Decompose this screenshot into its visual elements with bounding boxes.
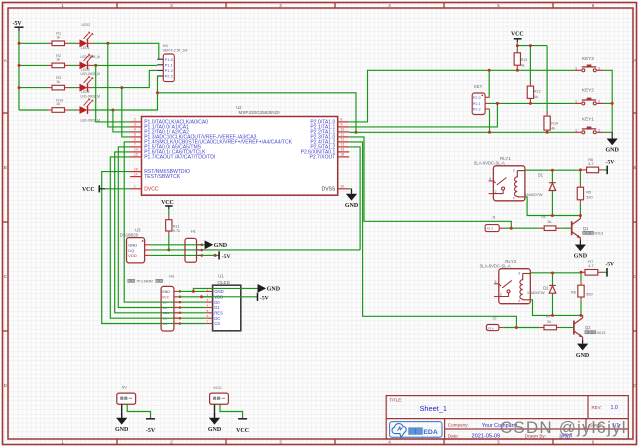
svg-text:KEY3: KEY3 [582,56,594,61]
svg-text:13: 13 [341,143,345,147]
svg-text:GND: GND [576,353,590,359]
svg-text:1: 1 [61,440,64,445]
svg-text:P1.0: P1.0 [165,57,174,62]
svg-text:P2.0: P2.0 [473,96,481,100]
svg-text:GND: GND [345,203,359,209]
transistor Q2 [574,315,583,340]
svg-text:MSP430G2553IN20: MSP430G2553IN20 [239,110,281,115]
svg-text:GND: GND [214,243,228,249]
MCU U2 MSP430G2553IN20 body [142,117,338,196]
resistor R8 [580,272,582,281]
svg-text:REV:: REV: [592,405,602,410]
svg-text:Q1: Q1 [583,226,589,231]
svg-text:DS18B20: DS18B20 [120,233,139,238]
wire LED row 1 left [19,42,48,44]
svg-text:H3: H3 [163,43,169,48]
svg-text:5: 5 [497,3,500,8]
svg-text:LED4: LED4 [81,90,90,94]
wire U3 DQ row long to P2.5 riser [150,249,360,251]
svg-text:D0: D0 [214,300,220,305]
svg-text:20: 20 [341,185,345,189]
svg-text:1: 1 [575,100,577,104]
wire P2.3 to J1 [349,137,511,228]
wire MCU P1.5 to H2 pin4 / OLED D1 [118,147,206,308]
connector J1 [485,225,499,232]
U3 pin stubs [145,245,151,256]
relay RLY1 body [493,166,525,201]
power flag GND at Q2 [576,340,590,359]
svg-text:2021-05-09: 2021-05-09 [472,434,501,440]
svg-text:2k: 2k [547,319,551,324]
junction dots keys section [516,44,519,47]
power flag -5V at R7 [602,271,607,273]
resistor R4 2k [540,227,544,229]
svg-text:P1.7/CAOUT /A7/CA7/TDO/TDI: P1.7/CAOUT /A7/CA7/TDO/TDI [144,155,215,161]
svg-text:14: 14 [134,148,138,152]
svg-text:7P-2.54MM: 7P-2.54MM [136,279,153,283]
svg-text:4: 4 [134,128,136,132]
OLED U1 body [213,285,241,331]
relay RLY2 contact [494,280,512,296]
svg-text:KEY1: KEY1 [582,116,594,121]
diode D1 [551,170,553,182]
svg-text:LED2: LED2 [82,23,91,27]
wire RLY2 coil bottom to rail [530,300,581,316]
connector H3 pin stubs [157,59,163,76]
MCU U2 left pin names [144,120,292,193]
diode D2 [552,273,554,285]
svg-text:3: 3 [513,169,515,173]
relay RLY1 contact [489,178,507,194]
svg-text:Sheet_1: Sheet_1 [420,404,448,413]
svg-text:4: 4 [513,196,515,200]
wire LED row2 branch to MCU P1.0 [96,65,130,122]
wires crossing H1 [185,244,197,246]
switch KEY1 [575,127,604,134]
svg-text:VDD: VDD [128,253,137,258]
wire keys right rail to GND [604,70,613,132]
power flag -5V (top left) [13,21,24,31]
wire LED row 3 left [19,87,48,89]
svg-text:5: 5 [134,133,136,137]
wire LED row2 to H3 pin2 [93,64,158,66]
svg-text:1k: 1k [56,102,60,106]
wire KEY pin1 riser to VCC rail row [488,70,490,97]
resistor R14 [546,46,548,113]
svg-text:2k: 2k [547,219,551,224]
svg-text:9013: 9013 [594,231,604,236]
svg-text:4: 4 [518,299,520,303]
wire U1 VDD row to -5V flag [202,296,258,298]
svg-text:P1.1: P1.1 [165,63,174,68]
svg-text:P2.3: P2.3 [487,227,494,231]
svg-text:GND: GND [208,427,222,433]
svg-text:U1: U1 [218,273,224,278]
svg-text:SLA-6VDC-SL-A: SLA-6VDC-SL-A [474,161,505,166]
U1 pin stubs and numbers [206,287,213,323]
svg-text:R12: R12 [534,89,541,93]
connector J2 [486,325,499,331]
svg-text:-5V: -5V [606,160,615,166]
svg-text:VCC: VCC [213,385,222,390]
relay RLY2 body [499,269,531,304]
svg-text:Company:: Company: [448,423,469,428]
H2 pin stubs and dots [174,291,178,323]
resistor R13 [516,46,518,50]
power flag -5V at U1 [258,293,269,302]
power flag VCC (keys) [511,31,524,42]
MCU U2 right pin stubs and numbers [338,118,350,189]
svg-text:P2.2: P2.2 [165,74,174,79]
svg-text:3: 3 [134,123,136,127]
svg-text:4.7: 4.7 [588,263,593,268]
relay RLY2 coil [520,274,530,300]
svg-text:-5V: -5V [222,254,231,260]
svg-text:2: 2 [598,129,600,133]
svg-text:DVCC: DVCC [144,186,159,192]
resistor R6 [582,169,586,171]
power flag -5V at R6 [603,169,607,171]
wire R9 to Q2 base [561,327,574,329]
svg-text:H2: H2 [169,273,175,278]
svg-text:EDA: EDA [423,429,437,436]
relay RLY1 coil [515,171,525,197]
wire 5V module pin1 to GND [121,404,123,418]
svg-text:VCC: VCC [82,187,95,193]
svg-text:LED1: LED1 [81,46,90,50]
svg-text:P2.2: P2.2 [473,108,481,112]
svg-text:GND: GND [162,290,170,294]
temperature sensor U3 DS18B20 [127,238,145,263]
MCU U2 left pin stubs and numbers [130,118,141,189]
wire resistor to LED row 2 [69,64,77,66]
svg-text:3: 3 [518,272,520,276]
wire R11 to DQ net [168,235,170,250]
svg-text:GND: GND [214,289,224,294]
wire RLY1 coil bottom to rail [525,197,581,216]
svg-text:2: 2 [170,440,173,445]
wire R4 to Q1 base [560,227,571,229]
svg-text:Date:: Date: [448,433,459,438]
LED LED1 [77,31,94,47]
svg-text:2: 2 [598,100,600,104]
wire LED row3 branch to MCU P1.3 [122,88,130,137]
svg-text:5V: 5V [122,385,127,390]
connector H1 [185,238,197,262]
power flag VCC at DVCC [82,185,105,193]
wire VCC module pin2 to VCC [220,404,243,418]
svg-text:4: 4 [388,3,391,8]
svg-text:12: 12 [341,138,345,142]
svg-text:H1: H1 [191,229,197,234]
wire KEY pin3 riser to KEY1 row [489,109,491,132]
svg-text:TITLE:: TITLE: [389,398,402,403]
svg-text:-5V: -5V [605,262,614,268]
junction dot R11-DQ [167,248,170,251]
svg-text:VCC: VCC [162,296,170,300]
svg-text:B: B [4,165,7,170]
svg-text:P2.4: P2.4 [488,326,494,330]
wire -5V left rail [18,31,20,110]
power flag GND at 5V module [115,413,129,433]
wire KEY3 row [517,69,574,71]
svg-text:1: 1 [61,3,64,8]
svg-text:OLED: OLED [217,280,230,285]
wire U3 GND row to H1 [150,244,185,246]
H1 pin dots [201,244,204,247]
svg-text:R8: R8 [571,290,576,295]
svg-text:VCC: VCC [236,428,249,434]
title block frame [386,396,628,439]
resistor R5 [579,170,581,184]
svg-text:1: 1 [134,185,136,189]
resistor R3 [48,87,53,89]
wires crossing H2 [161,301,174,303]
svg-text:11: 11 [341,133,345,137]
wire RLY2 coil top rail [530,272,552,274]
power flag GND at VCC module [208,413,222,433]
svg-text:1N4007W: 1N4007W [527,290,545,295]
svg-text:6: 6 [592,440,595,445]
switch KEY2 [575,98,604,105]
svg-text:5: 5 [497,440,500,445]
svg-text:R9: R9 [546,315,550,319]
svg-text:SLA-6VDC-SL-A: SLA-6VDC-SL-A [480,264,511,269]
wire 5V module pin2 to -5V [127,404,150,418]
svg-text:18: 18 [341,153,345,157]
resistor R11 [168,209,170,216]
svg-text:2: 2 [598,67,600,71]
svg-text:DQ: DQ [128,248,134,253]
svg-text:B: B [633,165,636,170]
resistor R9 2k [540,327,544,329]
svg-text:2: 2 [500,293,502,297]
svg-text:4.7k: 4.7k [173,229,180,233]
svg-text:1k: 1k [56,80,60,84]
wire Q2 collector riser [582,314,584,316]
svg-text:2: 2 [134,118,136,122]
wire LED row1 to H3 pin1 [93,43,159,59]
svg-text:LED-0603_M: LED-0603_M [81,72,101,76]
svg-text:4k: 4k [534,95,538,99]
svg-text:1N4007W: 1N4007W [525,192,543,197]
connector H3 [163,54,174,82]
svg-text:2: 2 [495,190,497,194]
svg-text:1.0: 1.0 [611,405,618,411]
MCU U2 right pin names [301,120,336,193]
svg-text:-5V: -5V [13,21,23,27]
svg-text:GND: GND [574,254,588,260]
svg-text:1k: 1k [56,36,60,40]
svg-text:KEY2: KEY2 [582,88,594,93]
svg-text:7: 7 [134,143,136,147]
wire MCU P1.6 to H2 pin5 / OLED RES [115,152,206,313]
svg-text:LED-0603_M: LED-0603_M [81,94,101,98]
svg-text:CS: CS [214,321,220,326]
resistor R12 [529,46,531,83]
resistor R10 [48,109,53,111]
wire VCC rail keys [516,42,518,46]
connector KEY pin stubs [485,97,489,109]
wire resistor to LED row 4 [69,109,77,111]
svg-text:P2.1: P2.1 [473,102,481,106]
power flag VCC at R11 [161,200,174,209]
resistor R1 [48,42,53,44]
svg-text:DC: DC [214,316,220,321]
svg-text:5: 5 [495,280,497,284]
resistor R2 [48,64,53,66]
wires H2 to OLED U1 [178,290,206,292]
wire LED row4 branch to MCU P1.2 [113,110,130,132]
wire VCC module pin1 to GND [214,404,216,418]
svg-text:GND: GND [267,287,281,293]
lceda logo [390,422,442,438]
svg-text:Q2: Q2 [585,325,591,330]
LED LED2 [77,53,94,69]
switch KEY3 [575,65,604,72]
svg-text:P1.2: P1.2 [165,68,174,73]
H1 pin stubs right [197,245,202,256]
svg-text:15: 15 [134,153,138,157]
svg-text:1: 1 [575,129,577,133]
power flag VCC at VCC module [236,419,249,434]
svg-text:D1: D1 [214,305,220,310]
svg-text:4k: 4k [551,127,555,131]
svg-text:-5V: -5V [260,295,269,301]
power flag GND at DVSS [349,188,351,190]
svg-text:3: 3 [279,440,282,445]
svg-text:TEST/SBWTCK: TEST/SBWTCK [144,174,181,180]
wire J2 to R9 [503,327,540,329]
wire LED row3 to H3 pin3 [93,70,158,87]
svg-text:16: 16 [134,167,138,171]
svg-text:DVSS: DVSS [322,186,336,192]
wire J1 to R4 [503,227,539,229]
power flag -5V at 5V module [146,419,156,434]
svg-text:3: 3 [279,3,282,8]
wire U1 GND row to GND flag [193,288,257,291]
LED LED4 [77,98,94,114]
svg-text:10: 10 [341,128,345,132]
svg-text:4: 4 [388,440,391,445]
svg-text:P2.7/XOUT: P2.7/XOUT [309,155,335,161]
svg-text:4.7: 4.7 [588,161,593,166]
wire KEY pin2 to KEY2 row [490,102,575,104]
wire LED row 4 left [19,109,48,111]
svg-text:GND: GND [606,148,620,154]
svg-text:HDR-F-2.54_1x4: HDR-F-2.54_1x4 [163,48,188,52]
svg-text:GND: GND [115,427,129,433]
connector KEY [472,93,485,115]
power flag GND at H1 [202,244,205,246]
svg-text:5: 5 [489,177,491,181]
svg-text:R14: R14 [551,121,558,125]
wire RLY1 coil top rail [525,169,553,171]
wire LED row1 branch to MCU P1.1 [108,43,130,127]
connector H2 [161,286,174,331]
transistor Q1 [572,216,581,241]
junction dots LED rails [18,42,21,45]
wire LED row 2 left [19,64,48,66]
wire resistor to LED row 3 [69,87,77,89]
wire U3 VDD row to H1 [150,254,185,256]
svg-text:R13: R13 [521,58,528,62]
svg-text:8: 8 [341,118,343,122]
svg-text:9: 9 [341,123,343,127]
svg-text:KEY: KEY [474,84,483,89]
svg-text:RES: RES [214,311,223,316]
wire P2.4 to J2 [349,142,516,328]
svg-text:1: 1 [575,67,577,71]
wire VCC to DVCC [105,188,130,190]
LED LED3 [77,76,94,92]
svg-text:6: 6 [592,3,595,8]
wire P2.5 to DS18B20 DQ net [349,147,360,250]
wire P2.0 to keys VCC rail [349,70,517,122]
svg-text:19: 19 [341,148,345,152]
svg-text:VCC: VCC [161,200,174,206]
junction dots RLY1 rails [551,169,554,172]
junction dots RLY2 rails [551,272,554,275]
wire long net from H3 riser to right (to P2.2 column) [158,93,357,133]
power flag -5V at H1 [202,254,215,256]
wire P2.2 to KEY1 row [349,131,575,133]
wire P2.1 to KEY pin2 [349,103,497,127]
wire resistor to LED row 1 [69,42,77,44]
svg-text:520: 520 [586,194,593,199]
svg-text:4k: 4k [521,64,525,68]
svg-text:17: 17 [134,172,138,176]
power flag GND at Q1 [574,241,588,260]
wire LED row4 to H3 pin4 riser [93,76,158,110]
svg-text:520: 520 [586,291,593,296]
wire Q1 collector [579,215,581,217]
resistor R7 [581,271,585,273]
svg-text:D1: D1 [538,172,544,177]
svg-text:6: 6 [134,138,136,142]
svg-text:VCC: VCC [511,31,524,37]
svg-text:2: 2 [170,3,173,8]
svg-text:LED-0603_M: LED-0603_M [81,55,101,59]
wire MCU P1.7 to H2 pin6 / OLED DC [110,157,206,318]
svg-text:9013: 9013 [597,330,607,335]
label H2 7P-2.54MM header [128,279,131,282]
wire MCU P1.4 to H2 pin3 / OLED D0 [124,142,206,302]
svg-text:CSDN @jyl6jyl: CSDN @jyl6jyl [500,418,627,437]
svg-text:-5V: -5V [146,428,156,434]
svg-text:1k: 1k [56,58,60,62]
svg-text:R4: R4 [542,215,546,219]
wire MCU RST to H2 pin7 / OLED CS [102,172,206,324]
